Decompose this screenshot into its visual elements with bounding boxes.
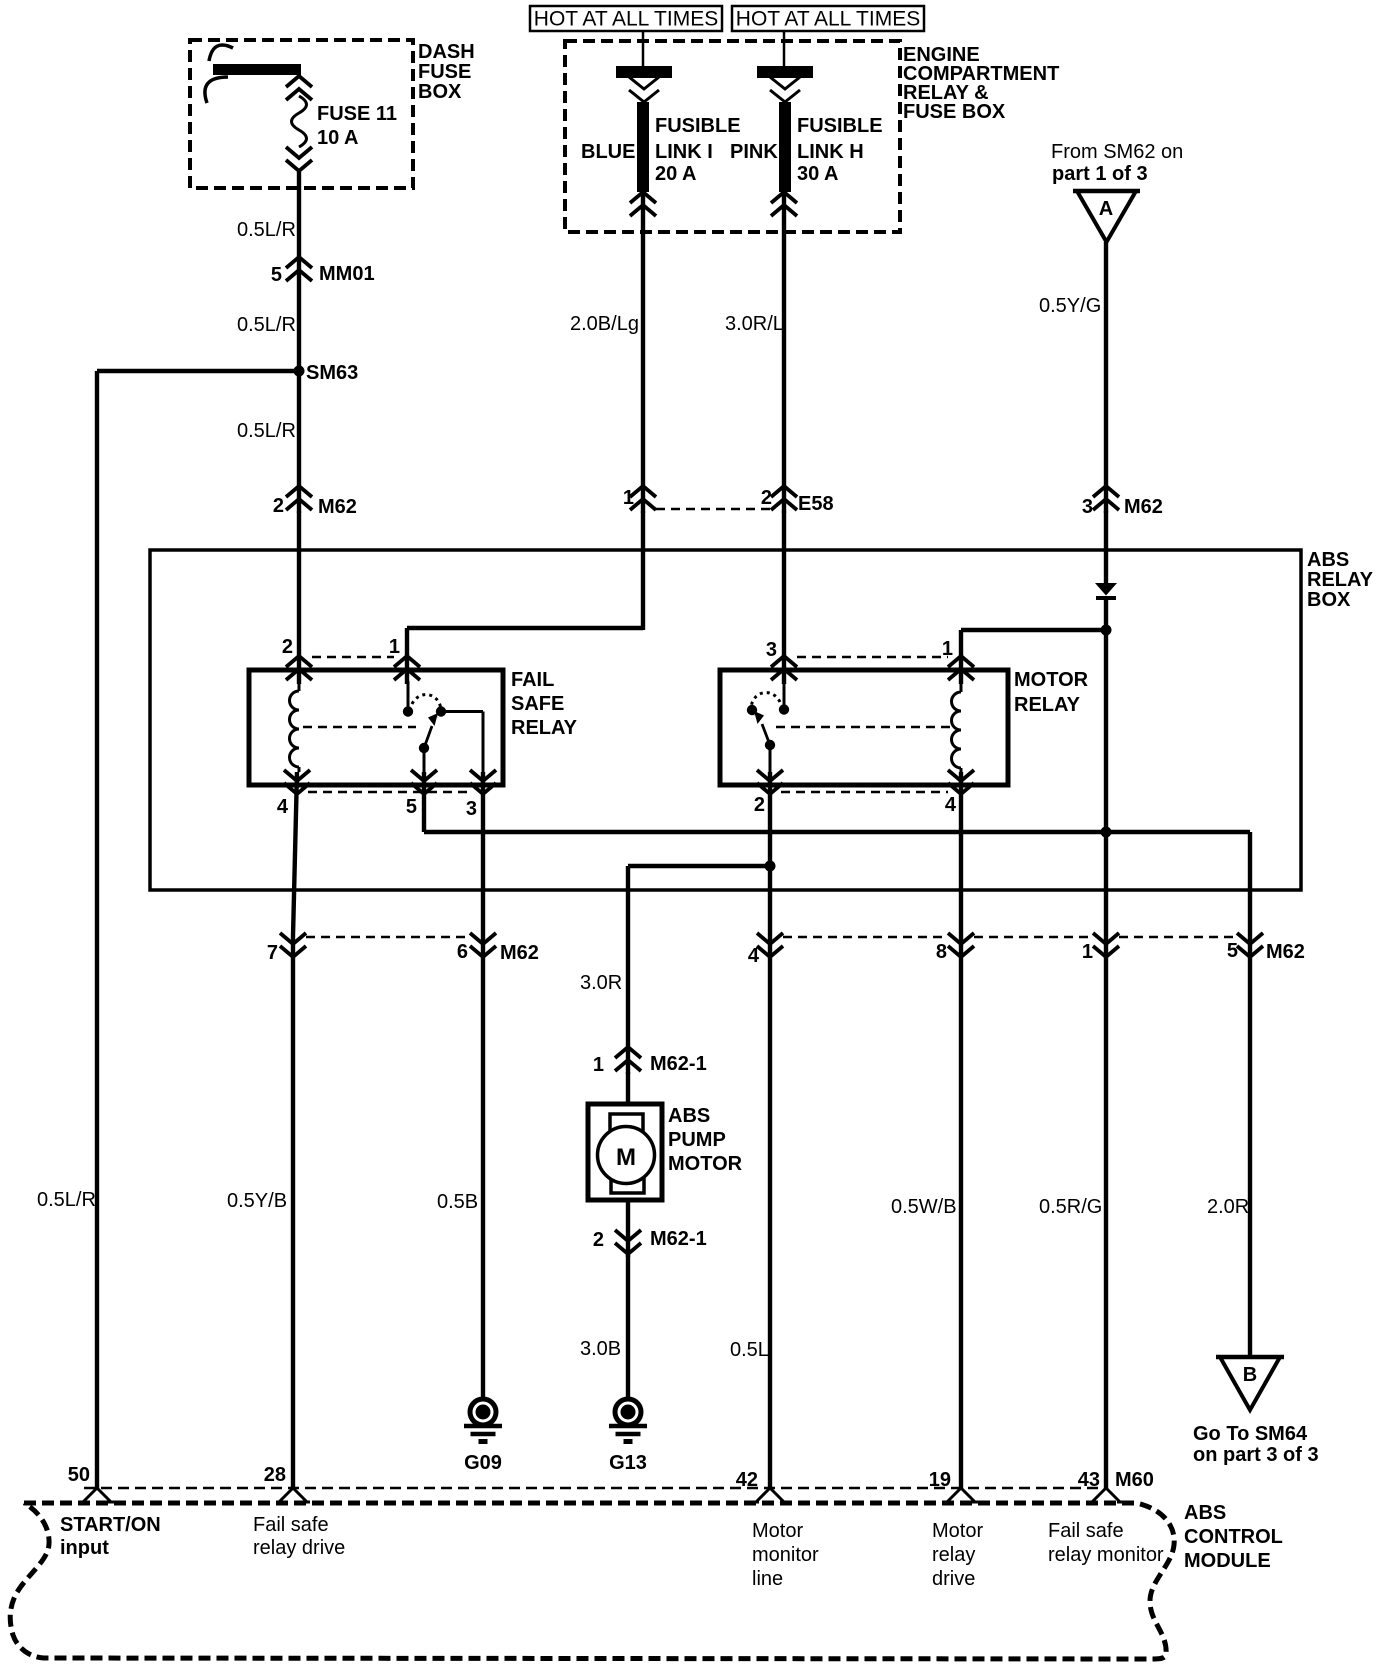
- svg-text:relay: relay: [932, 1544, 975, 1566]
- dashed pairing 7-6: [306, 936, 467, 939]
- node junction at fail-safe-monitor net: [1101, 827, 1112, 838]
- svg-text:M: M: [616, 1144, 636, 1171]
- svg-text:SM63: SM63: [306, 362, 358, 384]
- connector 7: [267, 933, 306, 964]
- svg-text:Fail safe: Fail safe: [253, 1514, 329, 1536]
- off-page connector triangle A: [1073, 191, 1140, 242]
- wire triangle A to connector 3 M62: [1104, 242, 1108, 513]
- svg-text:4: 4: [277, 796, 289, 818]
- svg-text:M62-1: M62-1: [650, 1228, 707, 1250]
- pin 43 M60 Fail safe relay monitor: [1048, 1469, 1164, 1566]
- wire 0.5L/R into relay box to fail safe pin 2: [297, 511, 301, 684]
- connector chevrons below left bar: [629, 77, 659, 102]
- svg-text:relay drive: relay drive: [253, 1537, 345, 1559]
- svg-text:3.0R: 3.0R: [580, 972, 622, 994]
- svg-text:5: 5: [1227, 940, 1238, 962]
- diode D1: [1095, 583, 1117, 598]
- svg-text:M62: M62: [318, 496, 357, 518]
- engine compartment relay & fuse box (dashed enclosure): [565, 41, 1059, 232]
- dashed pairing 4-8: [783, 936, 945, 939]
- pin 2 motor relay: [754, 770, 783, 816]
- svg-text:input: input: [60, 1537, 109, 1559]
- svg-text:0.5B: 0.5B: [437, 1191, 478, 1213]
- motor ABS PUMP MOTOR: [588, 1104, 743, 1200]
- fusible link H (PINK, 30 A): [730, 102, 883, 192]
- svg-text:HOT AT ALL TIMES: HOT AT ALL TIMES: [534, 8, 718, 31]
- dashed pairing 8-1: [974, 936, 1090, 939]
- svg-text:on part 3 of 3: on part 3 of 3: [1193, 1444, 1319, 1466]
- svg-text:0.5Y/B: 0.5Y/B: [227, 1190, 287, 1212]
- coil motor relay: [952, 681, 962, 772]
- wire 0.5Y/G into relay box to diode: [1104, 511, 1108, 585]
- connector 3 M62: [1082, 486, 1163, 518]
- dashed mechanical link motor relay: [776, 726, 955, 729]
- svg-text:19: 19: [929, 1469, 951, 1491]
- svg-text:BOX: BOX: [1307, 589, 1351, 611]
- dashed connector pairing line 1-2: [656, 508, 771, 511]
- svg-text:5: 5: [271, 264, 282, 286]
- wire junction to motor relay pin 1: [961, 628, 1106, 632]
- wire 3.0B to ground G13: [626, 1255, 630, 1399]
- wire fuse11 to MM01: [297, 172, 301, 513]
- wire 0.5R/G connector 1 to pin 43: [1104, 936, 1108, 1489]
- off-page reference label Go To SM64: [1193, 1423, 1319, 1466]
- svg-text:B: B: [1243, 1364, 1257, 1386]
- svg-text:50: 50: [68, 1464, 90, 1486]
- svg-text:1: 1: [593, 1054, 604, 1076]
- connector 6 M62: [457, 933, 539, 964]
- wire fail safe pin 5 to monitor net: [422, 772, 426, 832]
- wire motor relay pin 2 down to connector 4: [768, 772, 772, 936]
- pin 2 fail safe relay: [282, 636, 312, 680]
- ABS relay box (enclosure): [150, 549, 1374, 890]
- svg-text:28: 28: [264, 1464, 286, 1486]
- svg-text:3: 3: [466, 798, 477, 820]
- dash fuse box (dashed enclosure): [190, 40, 475, 188]
- wire 0.5W/B connector 8 to pin 19: [959, 936, 963, 1489]
- svg-text:1: 1: [623, 487, 634, 509]
- wire fail safe pin 3 down to connector 6: [481, 772, 485, 936]
- node diode junction: [1101, 625, 1112, 636]
- connector below link H: [771, 192, 797, 216]
- svg-text:FUSIBLE: FUSIBLE: [797, 115, 883, 137]
- pin 50 START/ON input: [60, 1464, 161, 1559]
- wire fail safe pin 4 down to connector 7: [293, 772, 297, 936]
- svg-text:0.5L: 0.5L: [730, 1339, 769, 1361]
- wire left column 0.5L/R down to pin 50: [95, 371, 99, 1489]
- connector 2 M62: [273, 486, 357, 518]
- svg-text:2: 2: [761, 487, 772, 509]
- svg-text:A: A: [1099, 198, 1113, 220]
- svg-text:0.5W/B: 0.5W/B: [891, 1196, 957, 1218]
- wire 2.0R connector 5 to triangle B: [1248, 936, 1252, 1358]
- connector MM01 pin 5: [271, 257, 375, 286]
- svg-text:10 A: 10 A: [317, 127, 359, 149]
- svg-text:M62: M62: [1124, 496, 1163, 518]
- svg-text:SAFE: SAFE: [511, 693, 564, 715]
- pin 42 Motor monitor line: [736, 1469, 819, 1590]
- connector below link I: [630, 192, 656, 216]
- pin 4 fail safe relay: [277, 770, 310, 818]
- svg-text:FUSE BOX: FUSE BOX: [903, 101, 1006, 123]
- svg-text:From SM62 on: From SM62 on: [1051, 141, 1183, 163]
- svg-text:ABS: ABS: [1184, 1502, 1226, 1524]
- svg-text:Motor: Motor: [752, 1520, 803, 1542]
- svg-text:ABS: ABS: [1307, 549, 1349, 571]
- svg-text:MM01: MM01: [319, 263, 375, 285]
- pin 1 motor relay: [942, 638, 974, 680]
- svg-text:2: 2: [273, 495, 284, 517]
- dashed pairing 1-5: [1119, 936, 1234, 939]
- wire junction down to connector 1: [1104, 832, 1108, 936]
- connector 1 (to E58, dashed pairing): [623, 486, 656, 510]
- wire link I to connector 1: [641, 192, 645, 513]
- dashed pairing pins 2-1: [312, 656, 394, 659]
- bus bar left: [616, 66, 672, 78]
- ABS control module (dashed enclosure): [10, 1502, 1283, 1659]
- svg-text:M62: M62: [1266, 941, 1305, 963]
- bus bar in dash fuse box: [205, 45, 301, 103]
- svg-text:MOTOR: MOTOR: [668, 1153, 743, 1175]
- wire HOT to bus bar (right): [783, 31, 786, 67]
- svg-text:20 A: 20 A: [655, 163, 697, 185]
- svg-text:0.5R/G: 0.5R/G: [1039, 1196, 1102, 1218]
- svg-text:FAIL: FAIL: [511, 669, 554, 691]
- wire 2.0B/Lg into relay box: [641, 511, 645, 630]
- pin 5 fail safe relay: [406, 770, 437, 818]
- wire 0.5B connector 6 to ground G09: [481, 936, 485, 1399]
- svg-text:ABS: ABS: [668, 1105, 710, 1127]
- svg-text:CONTROL: CONTROL: [1184, 1526, 1283, 1548]
- svg-text:FUSIBLE: FUSIBLE: [655, 115, 741, 137]
- svg-text:E58: E58: [798, 493, 834, 515]
- svg-text:7: 7: [267, 942, 278, 964]
- svg-text:3: 3: [766, 639, 777, 661]
- connector 2 M62-1: [593, 1228, 707, 1254]
- svg-text:LINK I: LINK I: [655, 141, 713, 163]
- relay FAIL SAFE RELAY (body): [249, 669, 578, 785]
- off-page connector triangle B: [1216, 1357, 1284, 1410]
- svg-text:RELAY: RELAY: [511, 717, 578, 739]
- dashed pairing pins 3-1: [797, 656, 948, 659]
- pin 28 Fail safe relay drive: [253, 1464, 345, 1559]
- dashed mechanical link fail safe: [303, 726, 416, 729]
- wire 3.0R/L into relay box to motor relay pin 3: [782, 511, 786, 684]
- svg-text:1: 1: [1082, 941, 1093, 963]
- relay MOTOR RELAY (body): [720, 669, 1089, 785]
- connector 5 M62: [1227, 933, 1305, 963]
- off-page reference label From SM62: [1051, 141, 1183, 185]
- svg-text:2.0B/Lg: 2.0B/Lg: [570, 313, 639, 335]
- svg-text:START/ON: START/ON: [60, 1514, 161, 1536]
- pin 3 fail safe relay: [466, 770, 496, 820]
- pin 1 fail safe relay: [389, 636, 420, 680]
- svg-text:PINK: PINK: [730, 141, 778, 163]
- node junction pump feed on motor monitor line: [765, 861, 776, 872]
- svg-text:3.0R/L: 3.0R/L: [725, 313, 784, 335]
- svg-text:2: 2: [754, 794, 765, 816]
- svg-text:4: 4: [945, 794, 957, 816]
- svg-text:DASH: DASH: [418, 41, 475, 63]
- coil fail safe relay: [290, 681, 300, 772]
- svg-text:BLUE: BLUE: [581, 141, 635, 163]
- svg-text:6: 6: [457, 941, 468, 963]
- dashed pairing pins 4-5-3: [308, 791, 470, 794]
- wire jog to fail safe pin 1: [407, 626, 643, 630]
- pin 19 Motor relay drive: [929, 1469, 984, 1590]
- pin 4 motor relay: [945, 770, 974, 816]
- wire SM63 to left column: [97, 369, 299, 373]
- fusible link I (BLUE, 20 A): [581, 102, 741, 192]
- svg-text:0.5L/R: 0.5L/R: [237, 219, 296, 241]
- svg-text:FUSE: FUSE: [418, 61, 471, 83]
- switch motor relay: [747, 681, 789, 772]
- svg-text:M60: M60: [1115, 1469, 1154, 1491]
- wire 0.5L connector 4 to pin 42: [768, 936, 772, 1489]
- svg-text:0.5L/R: 0.5L/R: [237, 314, 296, 336]
- svg-text:5: 5: [406, 796, 417, 818]
- connector chevrons below right bar: [770, 77, 800, 102]
- svg-text:0.5L/R: 0.5L/R: [37, 1189, 96, 1211]
- wire 3.0R pump feed horizontal: [628, 864, 770, 868]
- connector 4: [748, 933, 783, 967]
- thin dashed connector face line: [84, 1487, 1103, 1490]
- svg-text:2.0R: 2.0R: [1207, 1196, 1249, 1218]
- power tag HOT AT ALL TIMES (right): [732, 6, 924, 31]
- svg-text:M62-1: M62-1: [650, 1053, 707, 1075]
- svg-text:3: 3: [1082, 496, 1093, 518]
- wire HOT to bus bar (left): [642, 31, 645, 67]
- svg-text:42: 42: [736, 1469, 758, 1491]
- svg-text:relay monitor: relay monitor: [1048, 1544, 1164, 1566]
- svg-text:43: 43: [1078, 1469, 1100, 1491]
- svg-text:PUMP: PUMP: [668, 1129, 726, 1151]
- svg-text:part 1 of 3: part 1 of 3: [1052, 163, 1148, 185]
- svg-text:LINK H: LINK H: [797, 141, 864, 163]
- svg-text:RELAY: RELAY: [1014, 694, 1081, 716]
- wire monitor net down right to connector 5: [1248, 832, 1252, 936]
- svg-text:G09: G09: [464, 1452, 502, 1474]
- svg-text:2: 2: [282, 636, 293, 658]
- svg-text:1: 1: [389, 636, 400, 658]
- fuse FUSE 11 10 A: [286, 76, 397, 171]
- bus bar right: [757, 66, 813, 78]
- connector 8: [936, 933, 974, 963]
- svg-text:HOT AT ALL TIMES: HOT AT ALL TIMES: [736, 8, 920, 31]
- svg-text:0.5Y/G: 0.5Y/G: [1039, 295, 1101, 317]
- svg-text:2: 2: [593, 1229, 604, 1251]
- svg-text:8: 8: [936, 941, 947, 963]
- svg-text:BOX: BOX: [418, 81, 462, 103]
- svg-text:30 A: 30 A: [797, 163, 839, 185]
- wire 3.0R down to connector M62-1: [626, 866, 630, 1074]
- svg-text:FUSE 11: FUSE 11: [317, 103, 397, 125]
- svg-text:4: 4: [748, 945, 760, 967]
- power tag HOT AT ALL TIMES (left): [530, 6, 722, 31]
- wire diode to junction: [1104, 598, 1108, 632]
- svg-text:M62: M62: [500, 942, 539, 964]
- svg-text:MODULE: MODULE: [1184, 1550, 1271, 1572]
- connector 1 M62-1: [593, 1047, 707, 1076]
- wire diode junction down to lower junction: [1104, 630, 1108, 832]
- wire motor relay pin 4 down to connector 8: [959, 772, 963, 936]
- ground G13: [609, 1399, 647, 1474]
- svg-text:drive: drive: [932, 1568, 975, 1590]
- svg-text:3.0B: 3.0B: [580, 1338, 621, 1360]
- wire link H to connector E58: [782, 192, 786, 513]
- svg-text:MOTOR: MOTOR: [1014, 669, 1089, 691]
- svg-text:Go To SM64: Go To SM64: [1193, 1423, 1308, 1445]
- svg-text:G13: G13: [609, 1452, 647, 1474]
- ground G09: [464, 1399, 502, 1474]
- wire pump motor to connector 2 M62-1: [626, 1200, 630, 1257]
- svg-text:0.5L/R: 0.5L/R: [237, 420, 296, 442]
- connector 1: [1082, 933, 1119, 963]
- node SM63 (junction): [294, 362, 359, 384]
- pin 3 motor relay: [766, 639, 797, 680]
- svg-text:RELAY: RELAY: [1307, 569, 1374, 591]
- svg-text:line: line: [752, 1568, 783, 1590]
- wire connector M62-1 to pump motor: [626, 1072, 630, 1106]
- wire 0.5Y/B connector 7 to pin 28: [291, 936, 295, 1489]
- svg-text:Motor: Motor: [932, 1520, 983, 1542]
- dashed pairing pins 2-4: [781, 791, 948, 794]
- switch fail safe relay: [403, 681, 483, 772]
- svg-text:monitor: monitor: [752, 1544, 819, 1566]
- connector 2 E58: [761, 486, 834, 515]
- svg-text:Fail safe: Fail safe: [1048, 1520, 1124, 1542]
